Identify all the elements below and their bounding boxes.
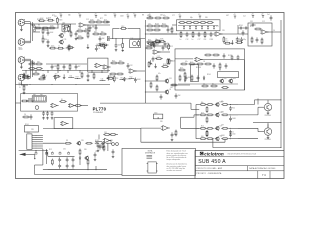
svg-text:330: 330 xyxy=(92,26,95,28)
svg-text:1n: 1n xyxy=(192,39,194,41)
svg-text:R12: R12 xyxy=(49,149,52,151)
svg-text:C77: C77 xyxy=(198,39,201,41)
svg-text:47u: 47u xyxy=(185,61,188,63)
svg-text:22K: 22K xyxy=(104,15,108,17)
svg-text:4K7: 4K7 xyxy=(224,78,227,80)
svg-text:47u: 47u xyxy=(163,15,166,17)
svg-text:MIC4: MIC4 xyxy=(19,83,23,85)
svg-text:-15: -15 xyxy=(78,13,80,15)
svg-text:R12: R12 xyxy=(170,46,173,48)
svg-text:100K: 100K xyxy=(50,32,55,34)
svg-text:2u2: 2u2 xyxy=(267,14,270,16)
svg-text:100n: 100n xyxy=(101,43,105,45)
svg-text:330: 330 xyxy=(205,17,208,19)
svg-text:PL770: PL770 xyxy=(93,107,107,112)
svg-text:PROJETO - DESENHISTA: PROJETO - DESENHISTA xyxy=(197,172,223,175)
svg-text:68p: 68p xyxy=(201,102,204,104)
svg-text:330: 330 xyxy=(84,149,87,151)
svg-text:68p: 68p xyxy=(40,94,43,96)
svg-text:INPUT: INPUT xyxy=(19,49,23,51)
svg-text:C31: C31 xyxy=(63,149,66,151)
svg-text:C77: C77 xyxy=(172,15,175,17)
svg-text:2SC5200: 2SC5200 xyxy=(265,115,271,117)
svg-text:+15: +15 xyxy=(251,14,254,16)
svg-text:acordo om manual.: acordo om manual. xyxy=(167,170,183,172)
svg-text:R12: R12 xyxy=(201,126,204,128)
svg-text:C4: C4 xyxy=(203,83,205,85)
svg-text:100K: 100K xyxy=(232,118,237,120)
svg-text:100K: 100K xyxy=(120,16,125,18)
svg-text:R118: R118 xyxy=(59,19,63,21)
svg-text:330: 330 xyxy=(160,121,163,123)
svg-text:4K7: 4K7 xyxy=(147,15,150,17)
svg-text:10K: 10K xyxy=(102,38,106,40)
svg-text:C12: C12 xyxy=(225,41,228,43)
svg-text:R77: R77 xyxy=(100,18,103,20)
svg-text:R45: R45 xyxy=(57,77,60,79)
svg-text:R201: R201 xyxy=(169,60,173,62)
svg-text:100K: 100K xyxy=(221,135,226,137)
svg-text:R8: R8 xyxy=(38,25,40,27)
svg-text:R77: R77 xyxy=(76,77,79,79)
svg-text:C12: C12 xyxy=(186,39,189,41)
svg-text:C77: C77 xyxy=(216,26,219,28)
svg-text:68p: 68p xyxy=(101,31,104,33)
svg-text:10K: 10K xyxy=(170,87,174,89)
svg-text:1n: 1n xyxy=(180,39,182,41)
svg-text:47u: 47u xyxy=(55,74,58,76)
svg-text:C12: C12 xyxy=(78,28,81,30)
svg-text:47u: 47u xyxy=(68,45,71,47)
svg-text:R118: R118 xyxy=(156,39,160,41)
svg-text:R118: R118 xyxy=(95,140,99,142)
svg-text:torque adequado.: torque adequado. xyxy=(167,158,182,161)
svg-text:C4: C4 xyxy=(45,75,47,77)
svg-text:C31: C31 xyxy=(250,21,253,23)
svg-text:DATA ALTERACAO 04/2006: DATA ALTERACAO 04/2006 xyxy=(249,167,275,170)
svg-text:22K: 22K xyxy=(116,78,120,80)
svg-text:R201: R201 xyxy=(162,23,166,25)
svg-text:100K: 100K xyxy=(137,79,142,81)
svg-text:68p: 68p xyxy=(243,39,246,41)
svg-text:330: 330 xyxy=(44,39,47,41)
svg-text:+15: +15 xyxy=(178,14,181,16)
svg-text:1K: 1K xyxy=(169,89,172,91)
svg-text:CIRCUITO VOLUME - AMP: CIRCUITO VOLUME - AMP xyxy=(197,167,223,170)
svg-text:D3: D3 xyxy=(225,39,227,41)
svg-text:R12: R12 xyxy=(190,62,193,64)
svg-text:R77: R77 xyxy=(52,15,55,17)
svg-text:C4: C4 xyxy=(98,48,100,50)
svg-text:68p: 68p xyxy=(221,101,224,103)
svg-text:68p: 68p xyxy=(190,17,193,19)
svg-text:C31: C31 xyxy=(101,78,104,80)
svg-text:R12: R12 xyxy=(130,76,133,78)
svg-text:R12: R12 xyxy=(130,65,133,67)
svg-text:R45: R45 xyxy=(112,60,115,62)
svg-text:1K: 1K xyxy=(203,61,206,63)
svg-text:100n: 100n xyxy=(154,113,158,115)
svg-text:SUB 450 A: SUB 450 A xyxy=(198,159,226,165)
svg-text:R201: R201 xyxy=(25,124,29,126)
svg-text:BC546: BC546 xyxy=(126,78,131,80)
svg-text:C4: C4 xyxy=(273,30,275,32)
svg-text:R8: R8 xyxy=(219,70,221,72)
svg-text:C12: C12 xyxy=(262,21,265,23)
svg-text:7 4: 7 4 xyxy=(262,173,266,177)
svg-text:15K: 15K xyxy=(110,140,114,142)
svg-text:R201: R201 xyxy=(207,74,211,76)
svg-text:R12: R12 xyxy=(121,26,124,28)
svg-text:D3: D3 xyxy=(66,140,68,142)
svg-text:100K: 100K xyxy=(155,44,160,46)
svg-text:2u2: 2u2 xyxy=(243,16,246,18)
svg-text:R118: R118 xyxy=(163,64,167,66)
svg-text:INDUSTRIA ELETRONICA LTDA: INDUSTRIA ELETRONICA LTDA xyxy=(228,153,257,156)
svg-text:100K: 100K xyxy=(188,77,193,79)
svg-text:47u: 47u xyxy=(158,73,161,75)
svg-text:68p: 68p xyxy=(33,94,36,96)
svg-text:R118: R118 xyxy=(228,55,232,57)
svg-text:4K7: 4K7 xyxy=(180,67,183,69)
svg-text:1n: 1n xyxy=(232,131,234,133)
svg-text:100n: 100n xyxy=(78,35,82,37)
svg-text:ciclotron: ciclotron xyxy=(204,151,224,156)
svg-text:2SC5200: 2SC5200 xyxy=(265,139,271,141)
svg-text:C31: C31 xyxy=(169,78,172,80)
svg-text:R8: R8 xyxy=(30,61,32,63)
svg-text:1n: 1n xyxy=(58,46,60,48)
svg-text:R8: R8 xyxy=(64,33,66,35)
svg-text:+40: +40 xyxy=(126,14,129,16)
svg-text:22K: 22K xyxy=(221,111,225,113)
svg-text:22K: 22K xyxy=(222,30,226,32)
svg-text:C4: C4 xyxy=(24,114,26,116)
svg-text:22K: 22K xyxy=(31,129,35,131)
svg-text:68p: 68p xyxy=(167,43,170,45)
svg-text:+15: +15 xyxy=(233,14,236,16)
svg-text:4K7: 4K7 xyxy=(104,19,107,21)
svg-text:C12: C12 xyxy=(86,19,89,21)
svg-text:C31: C31 xyxy=(104,132,107,134)
svg-text:47u: 47u xyxy=(150,63,153,65)
svg-text:C12: C12 xyxy=(157,56,160,58)
svg-text:+15: +15 xyxy=(59,13,62,15)
svg-text:R45: R45 xyxy=(233,78,236,80)
svg-text:4K7: 4K7 xyxy=(226,15,229,17)
svg-text:68p: 68p xyxy=(68,15,71,17)
svg-text:C31: C31 xyxy=(64,39,67,41)
svg-text:-40: -40 xyxy=(261,14,263,16)
svg-text:J5: J5 xyxy=(19,87,21,89)
svg-text:+15: +15 xyxy=(94,14,97,16)
svg-text:R201: R201 xyxy=(239,25,243,27)
svg-text:22K: 22K xyxy=(81,140,85,142)
svg-text:4K7: 4K7 xyxy=(153,44,156,46)
svg-text:C31: C31 xyxy=(69,75,72,77)
svg-text:R118: R118 xyxy=(210,39,214,41)
svg-text:-15: -15 xyxy=(133,13,135,15)
svg-text:100n: 100n xyxy=(51,46,55,48)
svg-text:100n: 100n xyxy=(232,134,236,136)
svg-text:C31: C31 xyxy=(148,23,151,25)
svg-text:4K7: 4K7 xyxy=(78,66,81,68)
svg-text:+15: +15 xyxy=(113,13,116,15)
svg-text:22K: 22K xyxy=(204,39,208,41)
svg-text:15K: 15K xyxy=(178,95,182,97)
svg-text:R12: R12 xyxy=(232,108,235,110)
svg-text:-15: -15 xyxy=(198,14,200,16)
svg-text:1n: 1n xyxy=(239,38,241,40)
svg-text:4K7: 4K7 xyxy=(201,112,204,114)
svg-text:R45: R45 xyxy=(54,66,57,68)
svg-text:R77: R77 xyxy=(148,39,151,41)
svg-text:R118: R118 xyxy=(155,23,159,25)
svg-text:R8: R8 xyxy=(142,15,144,17)
svg-text:MIC2: MIC2 xyxy=(19,48,23,50)
svg-text:DISSIPADOR: DISSIPADOR xyxy=(145,152,156,155)
svg-text:CN1: CN1 xyxy=(27,132,30,134)
svg-text:4K7: 4K7 xyxy=(221,125,224,127)
